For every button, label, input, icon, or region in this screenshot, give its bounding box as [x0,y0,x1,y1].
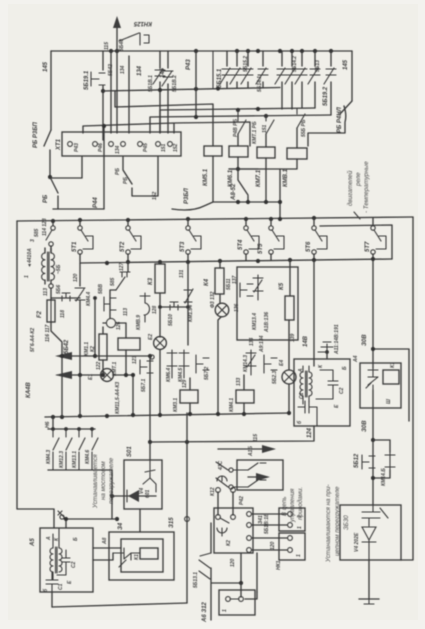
label 5Б13 [315,60,321,72]
wire 442 horizontal [148,426,314,444]
capacitor С1 А5 [46,572,64,592]
svg-text:55Б РБ: 55Б РБ [301,119,307,137]
svg-text:134: 134 [249,337,255,346]
node circle 122 [103,318,126,338]
thermal switch СТ6 [306,218,327,260]
SECTION-MID [17,216,413,560]
svg-text:5Б14.2: 5Б14.2 [292,56,298,72]
svg-text:А9:134: А9:134 [259,335,265,353]
box А8 inner [121,539,163,572]
connector cluster А16 arrows [218,445,276,481]
XT1 pin 134 [115,142,125,154]
wire drop to contact bank [52,417,54,429]
svg-text:5Б15.1: 5Б15.1 [217,68,223,88]
svg-text:цепном перегружателе: цепном перегружателе [334,486,341,556]
transformer Т [42,248,55,284]
switch Р4В РБ [233,110,246,146]
thyristor А8 [113,548,140,567]
svg-text:КА4В: КА4В [26,382,32,398]
contact КМ8.4 hook [123,293,150,330]
svg-text:К3: К3 [148,277,154,285]
contact СБ7.3 [234,283,253,312]
wire 308 drop [362,334,373,368]
switch АВ-52 [231,169,248,202]
arrow wire КА48 lower [55,354,100,379]
resistor R4 [204,261,238,303]
box А16 [237,460,283,490]
label 5Б19.2 [323,86,329,106]
wire 134 vertical [116,51,118,133]
XT1 pin Р45 [138,142,149,152]
svg-text:Б: Б [73,537,79,541]
svg-text:К2: К2 [90,346,96,352]
svg-text:- Температурные: - Температурные [363,161,370,213]
diode VD [354,527,376,560]
svg-text:С2: С2 [339,387,345,394]
relay coil КМ3.1 [173,378,198,413]
svg-text:КМ5.1: КМ5.1 [203,168,209,186]
wire top bus 114 [51,50,352,52]
svg-text:КМ11,5-А4-К3: КМ11,5-А4-К3 [115,382,121,414]
wire КМ8.1 drop [229,159,297,169]
pushbutton СБ7.2 [196,355,210,380]
thyristor VS inside S01 [143,460,156,492]
svg-text:5Б19.1: 5Б19.1 [84,70,90,90]
wire НК down right [256,553,258,592]
label А6 312 [202,601,208,623]
capacitor С2 А5 [57,550,77,575]
svg-text:З15: З15 [169,517,175,528]
pushbutton СБ2.3 [264,355,278,384]
svg-text:Р42: Р42 [239,496,245,505]
connector box НК1 upper [279,508,305,531]
svg-text:1: 1 [297,526,303,529]
pushbutton КН125 [119,33,149,45]
wire А4 bottom [372,390,374,408]
svg-text:А4: А4 [353,355,359,363]
label 145 top-left [43,61,49,72]
label Устанавливаются на при- [325,484,350,563]
svg-text:КМ14.Б: КМ14.Б [381,468,387,486]
svg-text:К12: К12 [210,487,216,496]
svg-text:КМ4.3: КМ4.3 [46,450,52,464]
svg-text:115: 115 [104,42,110,50]
svg-text:КМТ.1 РБ: КМТ.1 РБ [252,121,258,144]
fuse F2 [30,288,55,352]
svg-text:136: 136 [234,303,240,312]
svg-text:Р46: Р46 [98,143,104,152]
contact СБ14.1 [241,51,253,88]
А5 labels [42,536,79,592]
label Р44 [93,197,99,208]
wire to XT1 bottom [50,157,82,178]
pushbutton СБ12 [354,438,375,505]
wire contact bank bottom bus [48,470,114,519]
lamp Е1 [88,361,133,381]
frame temperature relays [320,225,392,259]
label 127 [119,262,125,271]
contact СБ15.1 [220,51,232,88]
svg-text:С1: С1 [299,392,305,399]
wire 148 drop [303,260,314,359]
svg-text:НК1: НК1 [276,560,282,570]
label V4 601 [139,488,151,498]
svg-text:РБ: РБ [123,177,129,184]
svg-text:приводами.: приводами. [297,487,304,520]
SECTION-LOW [45,324,409,603]
thermal switch СТ7 [365,218,386,349]
wire inner box left [128,56,130,133]
svg-text:КН125: КН125 [133,20,152,26]
wire bus 415 [45,413,290,417]
XT1 pin 113 [109,142,114,147]
svg-text:5Б19.2: 5Б19.2 [323,86,329,106]
svg-text:Р43: Р43 [186,59,192,70]
relay К1 А8 [134,548,158,560]
terminal clamp [58,511,64,519]
label 145 right [343,59,349,70]
svg-text:122: 122 [96,361,102,370]
label А18:136 [264,312,270,333]
label РБ Р4НЛ [337,106,343,133]
label РБ [115,168,121,175]
label Устанавливается на мостовом перегружателе [92,454,115,509]
relay coil КМ5.1 [203,146,222,186]
svg-text:КМ12.3: КМ12.3 [59,451,65,468]
svg-text:5Т3: 5Т3 [180,241,186,252]
svg-text:К4: К4 [204,278,210,286]
label 5Б15.2 [243,56,249,72]
wire L1 interconnect [115,91,213,146]
label КМ11.5-А4-К3 [115,382,121,414]
svg-text:V4 202Е: V4 202Е [354,532,360,552]
label 134 left [120,65,126,74]
relay coil КМ2.1 [112,338,140,376]
transformer А5 windings [50,528,62,580]
svg-text:КМ4.6: КМ4.6 [85,450,91,464]
svg-text:А1Б: А1Б [248,446,254,457]
relay coil КМ8.1 [283,148,307,187]
label КА48 [26,382,32,398]
svg-text:1: 1 [24,275,30,278]
wire РЗБЛ curve [172,202,213,210]
svg-text:С1: С1 [58,583,64,590]
contact КМ4.3 [46,429,59,470]
node junction dots on top bus [109,49,333,53]
label 152 [152,191,158,200]
switch А16 inner [248,463,266,487]
svg-text:В цепь: В цепь [281,497,288,516]
box А4 тиристорный блок [353,355,401,408]
svg-text:128: 128 [152,305,158,314]
transformer А windings [300,366,312,404]
svg-text:А1В:136: А1В:136 [264,312,270,333]
svg-text:116 117: 116 117 [45,324,51,342]
svg-text:114 123: 114 123 [42,218,48,236]
contact КМ14.3 [243,335,265,375]
box А8 outer [102,532,174,580]
svg-text:5Б13: 5Б13 [315,60,321,72]
svg-text:F2: F2 [37,310,43,318]
node dots on bus 219 [51,216,316,223]
svg-text:КМВ.1: КМВ.1 [283,168,289,187]
label КН125 (rotated 180) [133,20,152,26]
svg-text:РБ Р4НЛ: РБ Р4НЛ [337,106,343,133]
svg-text:1: 1 [296,554,302,557]
label 5Б18.2 [172,75,178,92]
svg-text:134: 134 [115,145,121,154]
contact КМ13.4 [252,275,263,330]
switch КМ7 blade [252,116,274,147]
svg-text:КМ7.1: КМ7.1 [256,169,262,187]
svg-text:152: 152 [173,143,179,152]
svg-text:А8-52: А8-52 [231,183,237,201]
label РБ Р3БП [33,121,39,148]
contact СБ18.1 [153,51,165,133]
svg-text:127: 127 [119,262,125,271]
svg-text:КМ3.1: КМ3.1 [173,398,179,412]
wire row 538 [247,536,287,541]
pushbutton СБ7.1 [132,354,154,442]
box S01 [124,446,162,509]
svg-text:585: 585 [34,228,40,237]
thyristor symbol in VD box [362,505,388,526]
svg-text:З0В: З0В [362,420,368,432]
contact СБ13.3 [308,51,320,108]
svg-text:124: 124 [307,427,313,438]
wire НК down left [212,553,243,585]
svg-text:ХТ1: ХТ1 [56,138,62,151]
contact КМ13.1 [72,429,85,470]
label В цепь управления приводами [281,487,304,523]
svg-text:Е1: Е1 [88,374,94,380]
SECTION-BOTTOM [30,438,401,623]
svg-text:Ш: Ш [386,399,392,404]
svg-text:134: 134 [137,65,143,76]
svg-text:43С: 43С [218,460,224,471]
svg-text:145: 145 [343,59,349,70]
label А16 115 [248,434,259,457]
pushbutton СБ8b [98,284,116,311]
svg-text:115: 115 [253,434,259,442]
contact СБ10 [158,302,190,326]
svg-text:К2: К2 [226,540,232,546]
svg-text:5Б10: 5Б10 [168,314,174,326]
svg-text:А11:14В:191: А11:14В:191 [334,324,340,355]
label 5Б14.2 [292,56,298,72]
label 151 [262,124,268,133]
svg-text:А: А [46,536,52,541]
contact СБ18.2 [162,51,173,133]
contact СБ19.2 [324,51,336,115]
plug contacts in left box [216,515,236,546]
wire branch right of СТ7 [371,347,409,421]
svg-text:5Б40: 5Б40 [119,39,125,51]
svg-text:151: 151 [262,124,268,133]
svg-text:З4: З4 [118,522,124,530]
switch РБ under XT1 [123,157,158,196]
svg-text:Е4: Е4 [279,360,285,366]
svg-text:Р45: Р45 [143,143,149,152]
connector box left РА2 [214,508,253,553]
box А блок трансформатора [294,359,350,426]
switch А16 upper [216,460,248,472]
svg-text:129: 129 [182,379,188,388]
wire left branch from bus [50,51,52,130]
svg-text:РБ: РБ [43,194,49,203]
svg-text:КМ1.54: КМ1.54 [188,305,194,322]
svg-text:КМ4.4: КМ4.4 [86,292,92,306]
label 5Б14.1 [257,76,263,92]
node dots on bus 261 [105,257,375,265]
svg-text:А5: А5 [30,538,36,547]
svg-text:S01: S01 [127,446,133,457]
wire left border [17,221,54,528]
contact СБ14.2 [256,51,268,88]
svg-text:КМ6.4: КМ6.4 [166,368,172,382]
svg-text:РБ: РБ [115,168,121,175]
svg-text:Б: Б [342,366,348,370]
wire row 550 [247,548,287,553]
svg-text:на мостовом: на мостовом [100,461,107,500]
wire bus 88 [103,86,280,92]
switch СБ42 [45,322,70,356]
contact КМ12.3 [59,429,72,470]
label Температурные реле двигателей [347,161,370,213]
svg-text:ЗБ30: ЗБ30 [343,515,350,530]
svg-text:К1: К1 [390,362,396,368]
contact СБ8 [110,262,130,330]
svg-text:5Б12: 5Б12 [354,453,360,468]
switch РБ lower-left [48,175,58,209]
svg-text:Н6: Н6 [45,421,51,428]
wire Е1 to bus [101,373,135,414]
wire 57 drop [57,354,64,417]
wire КМ7.1 drop [265,158,267,202]
svg-text:133: 133 [236,377,242,386]
svg-text:5ВВ: 5ВВ [98,284,104,294]
label 308 lower [362,420,368,432]
svg-text:585: 585 [110,277,116,286]
relay coil КМ6.1 [228,146,248,187]
relay coil КМ7.1 [256,147,275,187]
svg-text:К1: К1 [134,554,140,560]
svg-text:А6 З12: А6 З12 [202,601,208,623]
XT1 pin 152 [168,142,179,152]
svg-text:5Т2: 5Т2 [120,241,126,252]
contact СБ6 [51,285,80,318]
svg-text:5Б6: 5Б6 [56,285,62,294]
label трансформатор 4410А [24,239,62,278]
wire bus 202 [213,200,280,204]
wire arrow to KN125 [113,16,121,51]
label 115 [104,42,110,50]
svg-text:управления: управления [289,488,296,523]
switch РБ Р4НЛ [308,101,352,146]
svg-text:КМ4.1: КМ4.1 [229,398,235,412]
svg-text:~5Б: ~5Б [56,264,62,274]
leader line [354,212,360,219]
svg-text:Р4В РБ: Р4В РБ [233,119,239,137]
label Р43 [186,59,192,70]
svg-text:5Г6-А4-К2: 5Г6-А4-К2 [30,328,36,352]
wire 519 horizontal [64,517,117,528]
svg-text:5Б7.2: 5Б7.2 [204,367,210,380]
contact КМ6.4 [166,350,177,382]
contact СБ15.2 [230,51,242,88]
label ХТ1 [56,138,62,151]
thermal switch СТ1 [72,220,93,262]
resistor R3 [148,262,165,337]
wire right border [401,217,413,560]
wire А5 bottom to bus [51,592,53,607]
svg-text:120: 120 [270,541,276,550]
svg-text:Ф3 132: Ф3 132 [210,291,216,308]
label 145 inner [160,67,166,78]
wire S01 feed [149,442,151,460]
contact КМ4.5 [178,350,189,382]
wire E1 bottom drops [80,356,95,416]
svg-text:1: 1 [222,609,228,612]
svg-text:КМ13.4: КМ13.4 [252,313,258,330]
wire L3 interconnect [150,114,331,133]
thyristor VS1 [366,368,378,390]
svg-text:КМ13.1: КМ13.1 [72,451,78,468]
label 5Б15.1 [217,68,223,88]
switch А16 lower [210,478,248,496]
svg-text:120: 120 [73,273,79,282]
svg-text:5Б14.1: 5Б14.1 [257,76,263,92]
wire L2 interconnect [160,107,315,133]
svg-text:118: 118 [60,310,66,318]
lamp Е3 [210,291,229,414]
wire 113 vertical [110,51,112,133]
svg-text:5Б7.1: 5Б7.1 [141,379,147,392]
switch СБ13.1 [193,523,211,620]
contact КМ4.4 [75,263,92,374]
resistor R5 [279,260,294,370]
svg-text:А8: А8 [102,537,108,545]
label КМ13.4 [188,305,194,322]
label 134 inner [137,65,143,76]
svg-text:5Т1: 5Т1 [72,241,78,252]
svg-text:152: 152 [152,191,158,200]
thermal switch СТ5 [258,219,284,260]
svg-text:КМ14.3: КМ14.3 [243,355,249,372]
wire vertical 196 [195,51,197,117]
svg-text:601: 601 [145,489,151,498]
svg-text:Е2: Е2 [148,334,154,340]
capacitor to chassis [318,342,333,354]
label 120 [73,273,79,282]
thermal switch СТ2 [120,220,141,261]
wire 131 drop [179,262,193,345]
svg-text:РБ Р3БП: РБ Р3БП [33,121,39,148]
svg-text:145: 145 [43,61,49,72]
label СБ20 [119,39,125,51]
svg-text:КМ1.1: КМ1.1 [84,342,90,356]
thermal switch СТ4 [238,219,259,260]
capacitor С2 [316,370,345,399]
svg-text:5Б42: 5Б42 [64,339,70,354]
wire section border 213 [212,51,214,88]
labels 120 НК1 РА2 [230,496,282,570]
svg-text:5Т4: 5Т4 [238,239,244,250]
contact КМ14.6 bypass [371,440,395,486]
wire S01 bottom drop [139,509,141,532]
label Р3БЛ [184,187,190,204]
node dots bus 415 [51,411,291,419]
